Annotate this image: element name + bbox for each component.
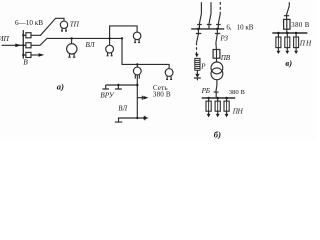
svg-text:РБ: РБ bbox=[201, 87, 211, 95]
transformer TP2 stem bbox=[71, 38, 73, 43]
bus (v) bbox=[272, 32, 307, 34]
node dot riser bbox=[108, 37, 110, 39]
svg-text:В: В bbox=[23, 58, 28, 67]
fuse top wire bbox=[286, 19, 288, 32]
svg-text:10 кВ: 10 кВ bbox=[237, 23, 254, 31]
arrowhead lower run bbox=[144, 116, 149, 120]
transformer TP5 circle (right end) bbox=[165, 69, 173, 77]
wire tap1 stub bbox=[23, 34, 26, 36]
node dot v2 bbox=[286, 32, 289, 35]
fuse PV wire through bbox=[216, 50, 218, 63]
arrester coil bbox=[195, 58, 200, 71]
node dot drop A bbox=[197, 28, 200, 31]
transformer T circle 2 bbox=[211, 68, 223, 80]
wire dashed to arrester bbox=[196, 43, 198, 54]
svg-text:а): а) bbox=[57, 82, 64, 92]
wire lower run left with entry bbox=[115, 118, 138, 122]
bus NN 380V bbox=[202, 97, 236, 99]
TP1 legs bbox=[61, 28, 67, 31]
svg-text:ПВ: ПВ bbox=[220, 54, 231, 62]
TP5 legs bbox=[166, 76, 172, 79]
switch: stub, blade, contact, stub bbox=[284, 2, 289, 19]
fuse PN3 bbox=[226, 98, 228, 114]
transformer TP3 circle bbox=[133, 32, 141, 40]
wire drop to cable run bbox=[122, 38, 169, 68]
svg-text:ВЛ: ВЛ bbox=[86, 41, 96, 49]
node dot v1 bbox=[277, 32, 280, 35]
disconnector drop A: stub, contact, blade bbox=[196, 29, 201, 43]
svg-text:ВРУ: ВРУ bbox=[100, 90, 114, 99]
svg-text:6—10 кВ: 6—10 кВ bbox=[15, 19, 43, 27]
transformer T circle 1 bbox=[211, 62, 223, 74]
node dot VRU entry2 bbox=[117, 84, 119, 86]
node dot VL at TP2 bbox=[70, 37, 72, 39]
wire below coil bbox=[196, 71, 198, 74]
fuse v1 bbox=[277, 33, 279, 51]
node dot VL end bbox=[121, 37, 123, 39]
node dot fuse 3 bbox=[225, 97, 228, 100]
svg-text:6,: 6, bbox=[226, 23, 232, 31]
svg-text:ВЛ: ВЛ bbox=[118, 105, 127, 112]
arrester gap arrowhead down bbox=[195, 74, 199, 78]
transformer TP6 stem bbox=[109, 38, 111, 45]
TP3 legs bbox=[134, 40, 140, 43]
TP4 feet bbox=[135, 75, 139, 79]
node dot fuse 1 bbox=[207, 97, 210, 100]
svg-text:ПН: ПН bbox=[232, 107, 244, 115]
breaker V1 bbox=[26, 33, 31, 38]
transformer TP4 circle bbox=[133, 67, 141, 75]
svg-text:ТП: ТП bbox=[70, 19, 80, 28]
TP2 legs bbox=[68, 54, 75, 58]
VRU entry2: stub and crossbar bbox=[115, 85, 122, 89]
svg-text:380 В: 380 В bbox=[291, 22, 309, 29]
arrowhead branch 1 bbox=[143, 96, 148, 100]
svg-text:ПН: ПН bbox=[299, 40, 312, 48]
svg-text:б): б) bbox=[214, 129, 221, 139]
transformer TP1 circle bbox=[60, 21, 67, 28]
node dot tap3 bbox=[22, 54, 24, 56]
wire tap3 arrow line bbox=[31, 54, 41, 56]
bus section a bbox=[22, 30, 24, 58]
node dot v3 bbox=[295, 32, 298, 35]
wire feed from IP bbox=[2, 44, 23, 46]
wire tap3 stub bbox=[23, 54, 26, 56]
ground bar bbox=[194, 78, 201, 80]
feeder 3 (dashed top) bbox=[219, 2, 221, 14]
fuse PN1: stub, rect, wire, arrow bbox=[208, 98, 210, 114]
arrowhead tap3 bbox=[39, 53, 45, 57]
breaker V3 bbox=[26, 52, 31, 57]
wire tap2 to VL line bbox=[31, 38, 122, 45]
node dot lower corner bbox=[136, 117, 138, 119]
VRU left entry: stub and crossbar bbox=[102, 85, 109, 89]
disconnector drop B bbox=[215, 29, 220, 50]
wire tap2 stub bbox=[23, 44, 26, 46]
fuse PN2 bbox=[217, 98, 219, 114]
bus 6-10 kV bbox=[191, 28, 224, 30]
TP6 legs bbox=[107, 53, 113, 56]
wire tap1 to TP1: stub, diagonal, top run bbox=[31, 18, 64, 35]
transformer TP6 circle bbox=[106, 45, 114, 53]
node dot tap1 bbox=[22, 34, 24, 36]
fuse top rect bbox=[284, 19, 290, 29]
fuse v3 bbox=[295, 33, 297, 51]
svg-text:380 В: 380 В bbox=[229, 89, 246, 96]
wire lower run right arrow bbox=[137, 116, 145, 120]
fuse PV rect bbox=[213, 50, 220, 59]
wire branch arrow 1 bbox=[137, 96, 144, 100]
transformer TP4 stem bbox=[136, 64, 138, 67]
breaker V2 bbox=[26, 43, 31, 48]
svg-text:в): в) bbox=[285, 58, 292, 68]
svg-text:Р: Р bbox=[200, 63, 206, 71]
node dot tap2 bbox=[22, 44, 24, 46]
wire riser to TP3 bbox=[110, 26, 138, 39]
fuse v2 bbox=[286, 33, 288, 51]
svg-text:РЗ: РЗ bbox=[219, 35, 228, 43]
arrester arrowhead top bbox=[195, 54, 199, 58]
svg-text:380 В: 380 В bbox=[153, 91, 171, 99]
feeder 1: wire, blade, contact bbox=[197, 2, 202, 29]
feeder 2 bbox=[207, 2, 212, 29]
switch RB: stub, blade, contact, stub bbox=[214, 80, 219, 98]
wire TP4 feeder down bbox=[136, 75, 138, 118]
node dot drop B bbox=[216, 28, 219, 31]
arrowhead feed bbox=[15, 44, 21, 48]
transformer TP2 circle bbox=[67, 44, 77, 54]
node dot above TP4 bbox=[136, 63, 138, 65]
svg-text:ИП: ИП bbox=[0, 34, 10, 43]
node dot fuse 2 bbox=[216, 97, 219, 100]
VRU bus 380V bbox=[106, 84, 138, 86]
node dot feeder x bus bbox=[136, 84, 138, 86]
